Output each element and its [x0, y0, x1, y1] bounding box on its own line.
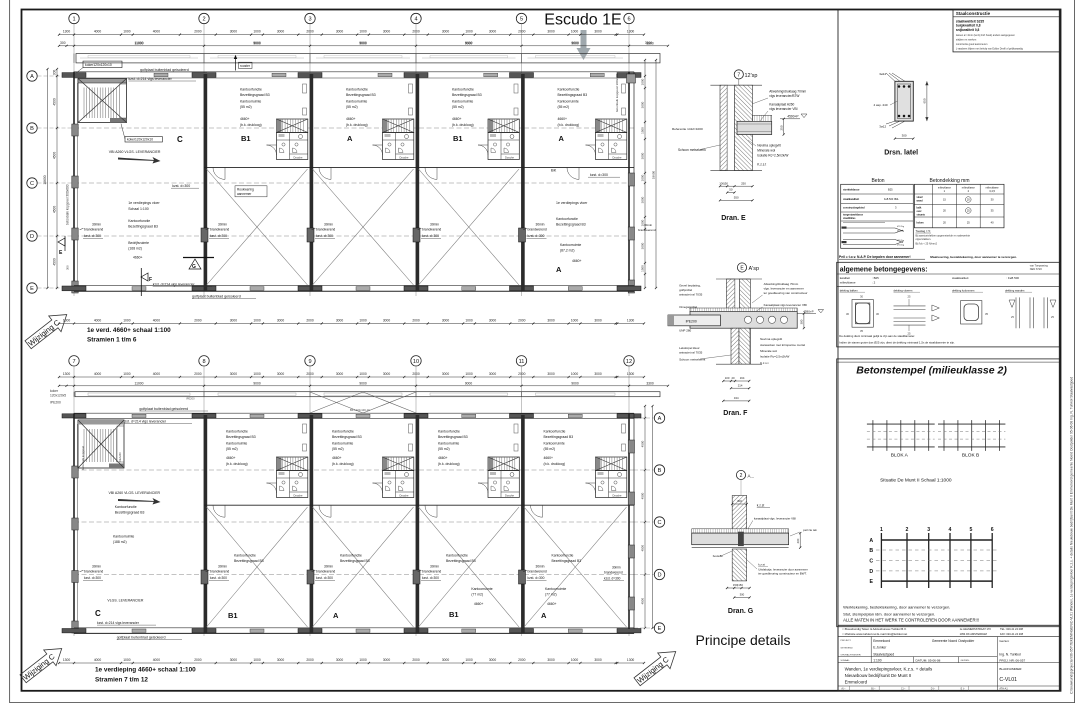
svg-text:4000: 4000	[94, 30, 102, 34]
svg-text:2: 2	[202, 17, 205, 23]
svg-text:Staalvastgoed: Staalvastgoed	[873, 652, 894, 656]
svg-text:C-VL01: C-VL01	[999, 677, 1017, 683]
svg-text:K.z.s.t: K.z.s.t	[760, 361, 769, 365]
svg-text:Wanden, 1e verdiepingsvloer,: Wanden, 1e verdiepingsvloer, K.z.s. + de…	[845, 666, 933, 671]
svg-text:B |–: B |–	[871, 688, 876, 691]
svg-text:Stut, stempelplan idm. door aa: Stut, stempelplan idm. door aannemer te …	[843, 612, 935, 617]
svg-text:A: A	[658, 416, 662, 422]
svg-text:4660+: 4660+	[438, 456, 448, 460]
svg-text:3000: 3000	[277, 372, 285, 376]
svg-text:250: 250	[741, 181, 746, 185]
svg-text:vlgs. leverancier en aannemer: vlgs. leverancier en aannemer	[764, 287, 804, 291]
svg-text:kzst. d=300: kzst. d=300	[422, 234, 439, 238]
svg-text:golfplaat buitenblad geisoleer: golfplaat buitenblad geisoleerd	[192, 295, 241, 299]
svg-text:2000: 2000	[194, 372, 202, 376]
svg-text:VBI A260 VLGS. LEVERANCIER: VBI A260 VLGS. LEVERANCIER	[109, 491, 161, 495]
svg-text:Kantoorruimte: Kantoorruimte	[240, 100, 261, 104]
svg-text:Werktekening, bestektekening,: Werktekening, bestektekening, door aanne…	[843, 605, 950, 610]
svg-text:3000: 3000	[594, 372, 602, 376]
svg-text:Emmeloord: Emmeloord	[873, 639, 890, 643]
bottom plan: canopy band	[75, 392, 660, 397]
svg-text:1000: 1000	[253, 372, 261, 376]
svg-text:snijkwaliteit 0,8: snijkwaliteit 0,8	[956, 28, 980, 32]
top plan: bottom wall band	[74, 284, 634, 286]
svg-text:D: D	[30, 234, 34, 240]
svg-text:B1: B1	[228, 611, 238, 620]
svg-text:3000: 3000	[442, 658, 450, 662]
svg-text:G: G	[192, 264, 196, 270]
svg-text:REA240: REA240	[118, 452, 122, 462]
svg-text:6: 6	[627, 17, 630, 23]
svg-text:3000: 3000	[230, 658, 238, 662]
svg-text:Bezettingsgraad B3: Bezettingsgraad B3	[552, 559, 582, 563]
svg-text:7: 7	[72, 359, 75, 365]
svg-text:7: 7	[737, 72, 740, 78]
svg-text:Kantoorruimte: Kantoorruimte	[452, 100, 473, 104]
svg-text:3300: 3300	[646, 41, 654, 45]
svg-text:GEZIEN:: GEZIEN:	[961, 660, 970, 662]
svg-text:3000: 3000	[383, 30, 391, 34]
svg-text:A: A	[869, 538, 873, 544]
bottom plan: party walls	[204, 415, 208, 633]
svg-text:wand: wand	[917, 199, 924, 202]
svg-text:9000: 9000	[465, 381, 473, 385]
svg-text:staalkwaliteit: staalkwaliteit	[843, 197, 859, 201]
svg-text:A: A	[347, 134, 353, 143]
svg-text:TEL: 020-41 24 208: TEL: 020-41 24 208	[1000, 627, 1023, 631]
svg-text:4660+: 4660+	[346, 117, 356, 121]
svg-text:(55 m2): (55 m2)	[346, 105, 358, 109]
svg-text:bouwBt.: bouwBt.	[713, 554, 724, 558]
top plan: column grid bubbles 1-6	[69, 13, 79, 23]
svg-text:Maatvoering, bestektekening,: Maatvoering, bestektekening, door aannem…	[930, 255, 1017, 259]
svg-text:A: A	[333, 611, 339, 620]
svg-text:Schoon metselwerk: Schoon metselwerk	[678, 148, 706, 152]
svg-text:L-raadsers blijven met behulp: L-raadsers blijven met behulp van Edilon…	[956, 47, 1024, 50]
svg-text:FAX: 020-41 24 208: FAX: 020-41 24 208	[1000, 632, 1024, 636]
svg-text:□ Bouwkundig Teken & Adviesbur: □ Bouwkundig Teken & Adviesbureau Turkko…	[843, 627, 907, 631]
svg-text:1000: 1000	[123, 30, 131, 34]
svg-text:Afwerking/druklaag 70mm: Afwerking/druklaag 70mm	[764, 282, 799, 286]
svg-text:20: 20	[731, 376, 735, 380]
svg-text:1000: 1000	[359, 658, 367, 662]
svg-text:NEN 6720: NEN 6720	[1030, 267, 1043, 271]
svg-text:dekking wanden: dekking wanden	[1005, 288, 1025, 292]
svg-text:E |–: E |–	[961, 688, 966, 691]
svg-text:Kanaalplaat vlgs leverancier V: Kanaalplaat vlgs leverancier VBI	[764, 303, 807, 307]
koker label box	[83, 61, 122, 68]
svg-text:vlgs leverancier/BTW: vlgs leverancier/BTW	[769, 94, 799, 98]
svg-text:9000: 9000	[253, 381, 261, 385]
svg-text:SCHAAL:: SCHAAL:	[841, 659, 851, 662]
svg-text:Bezettingsgraad B3: Bezettingsgraad B3	[226, 435, 256, 439]
svg-text:Lekdorpel kleur: Lekdorpel kleur	[679, 346, 700, 350]
svg-text:4660+: 4660+	[558, 117, 568, 121]
svg-text:650: 650	[922, 98, 926, 103]
svg-text:Isolatie Rc=2,5m2k/W: Isolatie Rc=2,5m2k/W	[760, 355, 789, 359]
svg-text:9000: 9000	[571, 381, 579, 385]
svg-text:Douche: Douche	[505, 156, 514, 160]
svg-text:3000: 3000	[547, 372, 555, 376]
svg-text:3000: 3000	[442, 319, 450, 323]
svg-text:Stramien 1 t/m 6: Stramien 1 t/m 6	[87, 336, 137, 343]
svg-text:Kantoorruimte: Kantoorruimte	[346, 100, 367, 104]
svg-text:2: 2	[740, 473, 743, 479]
svg-text:11000: 11000	[135, 381, 144, 385]
svg-text:Kantoorruimte: Kantoorruimte	[544, 442, 565, 446]
svg-text:kwaliteit: kwaliteit	[840, 276, 850, 280]
svg-text:: B25: : B25	[872, 276, 879, 280]
svg-text:van Toepassing: van Toepassing	[1030, 264, 1049, 268]
svg-text:Emmeloord: Emmeloord	[845, 680, 868, 685]
svg-text:F: F	[149, 277, 152, 283]
svg-text:Douche: Douche	[294, 156, 303, 160]
svg-text:164: 164	[740, 376, 745, 380]
svg-text:Minerale wol: Minerale wol	[760, 349, 777, 353]
top plan: right dimension chain	[644, 60, 646, 288]
svg-text:milieuklasse: milieuklasse	[840, 281, 856, 285]
svg-text:3000: 3000	[336, 30, 344, 34]
svg-text:Kantoorfunctie: Kantoorfunctie	[234, 554, 256, 558]
svg-text:5: 5	[969, 527, 972, 533]
svg-text:k.z.st: k.z.st	[757, 504, 765, 508]
svg-text:Bezettingsgraad B3: Bezettingsgraad B3	[452, 93, 482, 97]
svg-text:B1: B1	[453, 134, 463, 143]
svg-text:1000: 1000	[253, 319, 261, 323]
svg-text:Nevima oplegvilt: Nevima oplegvilt	[757, 144, 780, 148]
svg-text:E.Jonker: E.Jonker	[873, 646, 887, 650]
svg-text:golfprofiel: golfprofiel	[679, 288, 692, 292]
svg-text:Ing. N. Turkkol: Ing. N. Turkkol	[999, 653, 1021, 657]
svg-text:Aanwerken met krimparme mortel: Aanwerken met krimparme mortel	[760, 343, 805, 347]
level flags E F G	[64, 236, 66, 251]
svg-text:1e verdiepings vloer: 1e verdiepings vloer	[128, 201, 160, 205]
svg-text:4660+: 4660+	[240, 117, 250, 121]
svg-text:30: 30	[846, 312, 849, 316]
svg-text:3000: 3000	[442, 372, 450, 376]
svg-text:30: 30	[876, 312, 879, 316]
svg-text:1000: 1000	[571, 658, 579, 662]
svg-text:3,4,5: 3,4,5	[989, 189, 995, 193]
svg-text:1000: 1000	[465, 30, 473, 34]
svg-text:(55 m2): (55 m2)	[452, 105, 464, 109]
svg-text:kzst. d=300: kzst. d=300	[84, 234, 101, 238]
svg-text:4500: 4500	[641, 492, 645, 499]
svg-text:Kantoorruimte: Kantoorruimte	[560, 243, 581, 247]
svg-text:4000: 4000	[153, 658, 161, 662]
right panel column divider	[837, 10, 839, 691]
svg-text:Beton: Beton	[871, 178, 884, 184]
svg-text:3000: 3000	[442, 30, 450, 34]
svg-text:(87,2 m2): (87,2 m2)	[560, 249, 575, 253]
svg-text:300: 300	[737, 499, 742, 503]
svg-text:(55 m2): (55 m2)	[240, 105, 252, 109]
svg-text:3000: 3000	[230, 30, 238, 34]
svg-text:Bezettingsgraad B3: Bezettingsgraad B3	[438, 435, 468, 439]
svg-text:3000: 3000	[336, 658, 344, 662]
svg-text:1e verdieping 4660+ schaal 1:1: 1e verdieping 4660+ schaal 1:100	[95, 667, 196, 674]
svg-text:De dekking dient minimaal geli: De dekking dient minimaal gelijk te zijn…	[839, 334, 915, 338]
svg-text:brandwerend: brandwerend	[316, 228, 335, 232]
svg-text:kzst. d=300: kzst. d=300	[590, 173, 608, 177]
svg-text:koker120x120x10: koker120x120x10	[85, 63, 112, 67]
svg-text:Bezettingsgraad B3: Bezettingsgraad B3	[128, 225, 158, 229]
svg-text:1500: 1500	[641, 265, 645, 272]
svg-text:9: 9	[308, 359, 311, 365]
svg-text:Dran. G: Dran. G	[728, 608, 754, 615]
svg-text:4000: 4000	[153, 372, 161, 376]
svg-text:Afwerking/druklaag 70mm: Afwerking/druklaag 70mm	[769, 90, 806, 94]
svg-text:1e verdiepings vloer: 1e verdiepings vloer	[556, 201, 588, 205]
svg-text:1000: 1000	[123, 372, 131, 376]
svg-text:1000: 1000	[253, 30, 261, 34]
svg-text:4660+: 4660+	[547, 602, 557, 606]
svg-text:4500: 4500	[53, 258, 57, 266]
svg-text:brandwerend: brandwerend	[210, 570, 229, 574]
svg-text:11000: 11000	[135, 41, 144, 45]
svg-text:A: A	[559, 134, 565, 143]
svg-text:1000: 1000	[253, 658, 261, 662]
svg-text:2000: 2000	[306, 30, 314, 34]
bottom plan: X braces	[207, 507, 308, 627]
bottom plan: column grid bubbles 7-12	[69, 356, 79, 366]
top plan: row grid dashed lines	[38, 75, 75, 77]
svg-text:550: 550	[734, 195, 739, 199]
svg-text:A...: A...	[748, 474, 755, 479]
svg-text:3000: 3000	[336, 319, 344, 323]
svg-text:(168 m2): (168 m2)	[128, 247, 142, 251]
bottom plan: office separation wall	[204, 504, 634, 506]
svg-text:3000: 3000	[547, 658, 555, 662]
svg-text:4500: 4500	[641, 598, 645, 605]
svg-text:2000: 2000	[194, 319, 202, 323]
svg-text:Douche: Douche	[400, 494, 409, 498]
svg-text:D |–: D |–	[931, 688, 936, 691]
bottom plan: bottom dim chain + captions	[59, 662, 644, 664]
svg-text:3000: 3000	[594, 658, 602, 662]
svg-text:kolom: kolom	[917, 222, 924, 225]
detail Dran. F	[668, 263, 824, 417]
svg-text:kzst. d=300: kzst. d=300	[316, 576, 333, 580]
svg-text:2000: 2000	[518, 319, 526, 323]
outer thin border	[9, 0, 11, 703]
wijziging arrows bottom	[17, 641, 68, 687]
koker label (stair)	[125, 137, 162, 142]
svg-text:algemene betongegevens:: algemene betongegevens:	[840, 266, 928, 273]
svg-text:staalkwaliteit: staalkwaliteit	[952, 276, 969, 280]
svg-text:30min: 30min	[430, 223, 439, 227]
bottom plan: front wall band	[74, 412, 634, 414]
svg-text:Escudo 1E: Escudo 1E	[544, 12, 621, 29]
svg-text:2000: 2000	[306, 372, 314, 376]
top plan: party walls at grids 2-5	[204, 74, 208, 291]
svg-text:brandwerend: brandwerend	[210, 228, 229, 232]
svg-text:Kantoorfunctie: Kantoorfunctie	[115, 505, 137, 509]
svg-text:Gemeente Noord Oostpolder: Gemeente Noord Oostpolder	[932, 639, 975, 643]
svg-text:1300: 1300	[627, 372, 635, 376]
svg-text:PROJECT:: PROJECT:	[841, 640, 852, 642]
svg-text:kzst. d=214 vlgs leverancier: kzst. d=214 vlgs leverancier	[153, 283, 196, 287]
svg-text:E: E	[869, 579, 873, 585]
svg-text:300: 300	[66, 265, 70, 270]
svg-text:C |–: C |–	[901, 688, 906, 691]
svg-text:Gezien:: Gezien:	[999, 639, 1009, 643]
svg-text:3000: 3000	[547, 319, 555, 323]
svg-text:k.z.st: k.z.st	[758, 563, 765, 567]
svg-text:Ø 12kg: Ø 12kg	[897, 240, 905, 242]
svg-text:Kantoorfunctie: Kantoorfunctie	[240, 88, 262, 92]
svg-text:C: C	[95, 609, 101, 618]
svg-text:kzst. d=300: kzst. d=300	[422, 576, 439, 580]
svg-text:OPDRACHTGEVER:: OPDRACHTGEVER:	[841, 653, 862, 656]
detail Dran. G	[692, 470, 818, 615]
svg-text:9000: 9000	[359, 41, 367, 45]
svg-text:9000: 9000	[571, 41, 579, 45]
top plan: canopy roof band	[76, 54, 660, 63]
svg-text:2000: 2000	[412, 30, 420, 34]
svg-text:A |–: A |–	[841, 688, 846, 691]
svg-text:antraciet ral 7035: antraciet ral 7035	[679, 293, 703, 297]
svg-text:Douche: Douche	[505, 494, 514, 498]
svg-text:3000: 3000	[489, 372, 497, 376]
svg-text:Kantoorruimte: Kantoorruimte	[558, 100, 579, 104]
svg-text:C: C	[657, 520, 661, 526]
svg-text:brandwerend: brandwerend	[604, 571, 623, 575]
svg-text:3000: 3000	[489, 30, 497, 34]
svg-text:Kantoorfunctie: Kantoorfunctie	[558, 88, 580, 92]
svg-text:18600: 18600	[652, 170, 656, 179]
svg-text:3000: 3000	[594, 30, 602, 34]
svg-text:□ Website www.turkkol.net E-: □ Website www.turkkol.net E-mail info@tu…	[843, 632, 908, 636]
svg-text:brandwerend: brandwerend	[84, 228, 103, 232]
betonstempel panel	[837, 359, 1060, 627]
svg-text:A: A	[556, 265, 562, 274]
svg-text:B1: B1	[449, 610, 459, 619]
svg-text:100|50: 100|50	[719, 181, 728, 185]
svg-text:4500: 4500	[53, 152, 57, 160]
svg-text:30min: 30min	[324, 565, 333, 569]
svg-text:C: C	[177, 135, 183, 144]
svg-text:1000: 1000	[359, 30, 367, 34]
svg-text:brandwerend: brandwerend	[84, 570, 103, 574]
svg-text:4 asp. 240: 4 asp. 240	[874, 103, 888, 107]
svg-text:1000: 1000	[571, 372, 579, 376]
svg-text:golfplaat buitenblad geisoleer: golfplaat buitenblad geisoleerd	[139, 407, 188, 411]
svg-text:12'sp: 12'sp	[745, 73, 758, 79]
bottom plan: unit C stair	[78, 420, 124, 468]
algemene betongegevens panel	[837, 262, 1060, 347]
svg-text:30min: 30min	[644, 223, 653, 227]
svg-text:Kantoorfunctie: Kantoorfunctie	[226, 430, 248, 434]
svg-text:kzst. d=300: kzst. d=300	[210, 576, 227, 580]
top plan: unit cores	[277, 119, 308, 160]
gray locator arrow	[577, 30, 591, 60]
svg-text:2000: 2000	[518, 372, 526, 376]
svg-text:milieuklasse: milieuklasse	[938, 186, 952, 189]
svg-text:B: B	[30, 126, 34, 132]
svg-text:3000: 3000	[641, 196, 645, 203]
svg-text:(188 m2): (188 m2)	[113, 540, 127, 544]
svg-text:A'sp: A'sp	[749, 266, 760, 272]
bottom plan: right dim chain	[644, 406, 646, 628]
svg-text:50: 50	[729, 188, 733, 192]
svg-text:260: 260	[796, 538, 800, 543]
svg-text:Kantoorfunctie: Kantoorfunctie	[332, 430, 354, 434]
svg-text:9000: 9000	[253, 41, 261, 45]
svg-text:dekking kolommen: dekking kolommen	[952, 288, 975, 292]
svg-text:Kantoorfunctie: Kantoorfunctie	[556, 217, 578, 221]
svg-text:Douche: Douche	[400, 156, 409, 160]
wijziging arrow left (top plan)	[22, 307, 73, 353]
svg-text:ATH-A1: ATH-A1	[999, 688, 1008, 691]
svg-text:Kantoorfunctie: Kantoorfunctie	[128, 219, 150, 223]
svg-text:dekking vloeren: dekking vloeren	[894, 288, 913, 292]
svg-text:25: 25	[908, 295, 911, 299]
svg-text:Bezettingsgraad B3: Bezettingsgraad B3	[556, 223, 586, 227]
svg-text:C:\bouwkundig\projecten\06-057: C:\bouwkundig\projecten\06-057\TEKENINGE…	[1070, 377, 1074, 694]
svg-text:Kantoorfunctie: Kantoorfunctie	[438, 430, 460, 434]
svg-text:Bezettingsgraad B3: Bezettingsgraad B3	[446, 559, 476, 563]
svg-text:3000: 3000	[277, 658, 285, 662]
svg-text:(b.k. drukloog): (b.k. drukloog)	[438, 462, 460, 466]
svg-text:1500: 1500	[641, 127, 645, 134]
svg-text:: 2: : 2	[872, 281, 876, 285]
svg-text:4660+: 4660+	[226, 456, 236, 460]
svg-text:3000: 3000	[383, 658, 391, 662]
bottom plan: upper dimension chains	[59, 376, 644, 378]
svg-text:Kantoorfunctie: Kantoorfunctie	[544, 430, 566, 434]
svg-text:Betondekking mm: Betondekking mm	[929, 178, 969, 184]
svg-text:4660+: 4660+	[544, 456, 554, 460]
svg-text:K.z.s.t: K.z.s.t	[757, 162, 766, 166]
svg-text:1300: 1300	[627, 319, 635, 323]
svg-text:(b.k. drukloog): (b.k. drukloog)	[558, 123, 580, 127]
svg-text:(b.k. drukloog): (b.k. drukloog)	[240, 123, 262, 127]
svg-text:betonbalk kopgevel 300x600: betonbalk kopgevel 300x600	[66, 184, 70, 225]
svg-text:milieuklasse: milieuklasse	[986, 186, 1000, 189]
svg-text:Kantoorruimte: Kantoorruimte	[438, 442, 459, 446]
svg-text:staalkwaliteit S235: staalkwaliteit S235	[956, 19, 984, 23]
svg-text:D: D	[869, 569, 873, 575]
top plan: lower dimension chain (totals)	[59, 45, 668, 47]
svg-text:Ø 16kg: Ø 16kg	[897, 245, 905, 247]
svg-text:18600: 18600	[43, 175, 47, 184]
svg-text:kzst. d=214 vlgs leverancier: kzst. d=214 vlgs leverancier	[129, 77, 173, 81]
svg-text:Schoon metselwerk: Schoon metselwerk	[679, 358, 706, 362]
svg-text:ter goedkeuring constructeur e: ter goedkeuring constructeur en BWT.	[758, 572, 807, 576]
svg-text:Ø 16kg: Ø 16kg	[897, 231, 905, 233]
svg-text:Kantoorfunctie: Kantoorfunctie	[446, 554, 468, 558]
svg-text:BLOK A: BLOK A	[891, 453, 909, 459]
svg-text:30: 30	[860, 295, 863, 299]
svg-text:koker120x120x10: koker120x120x10	[127, 138, 153, 142]
detail Dran. E	[672, 70, 807, 222]
svg-text:Bezettingsgraad B3: Bezettingsgraad B3	[240, 93, 270, 97]
svg-text:IPE200: IPE200	[50, 401, 61, 405]
svg-text:kzst. d=214 vlgs leverancier: kzst. d=214 vlgs leverancier	[97, 621, 140, 625]
svg-text:A: A	[541, 611, 547, 620]
svg-text:1054 DK AMSTERDAM: 1054 DK AMSTERDAM	[960, 632, 987, 636]
svg-text:(77 m2): (77 m2)	[471, 593, 483, 597]
svg-text:D: D	[657, 573, 661, 579]
bottom plan: exterior walls	[73, 413, 75, 633]
svg-text:300: 300	[60, 41, 66, 45]
svg-text:30min: 30min	[430, 565, 439, 569]
rookwering box	[235, 186, 267, 197]
svg-text:steunts: steunts	[917, 213, 926, 216]
svg-text:B: B	[658, 468, 662, 474]
svg-text:C: C	[869, 559, 873, 565]
